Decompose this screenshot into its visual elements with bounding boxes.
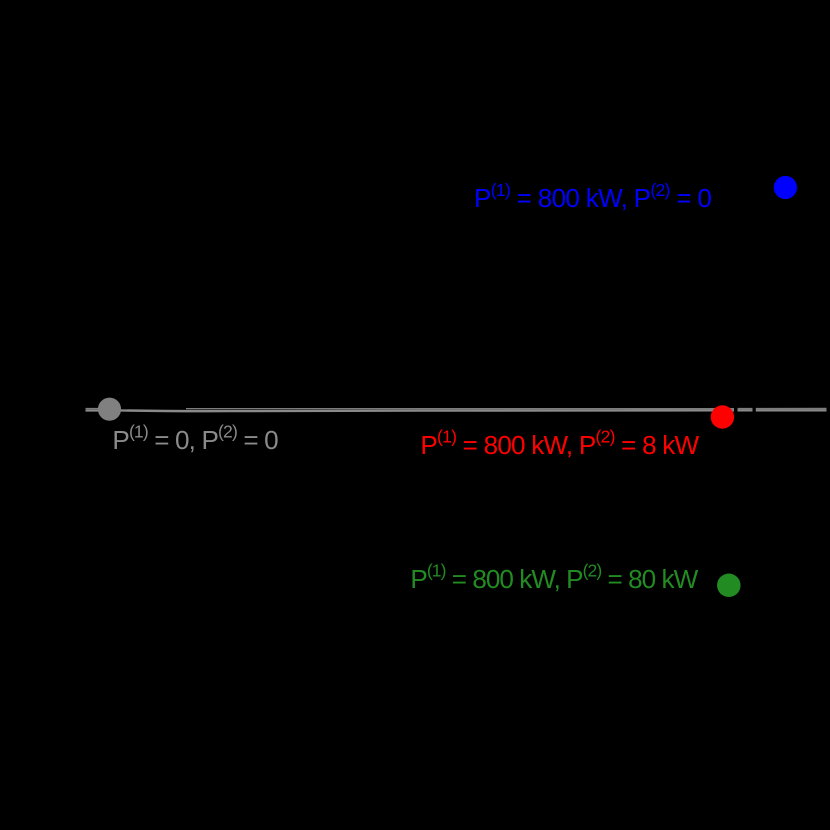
wire: droop curve (solid gray line through no-load point, flat to right edge) (86, 409, 827, 412)
wire: thin upper reference line with gaps (86, 407, 827, 409)
svg-text:P(1) = 800 kW, P(2) = 0: P(1) = 800 kW, P(2) = 0 (474, 180, 711, 213)
svg-text:P(1) = 800 kW, P(2) = 8 kW: P(1) = 800 kW, P(2) = 8 kW (420, 427, 699, 460)
node: green operating point P1=800kW, P2=80kW (717, 574, 741, 598)
node: blue operating point P1=800kW, P2=0 (774, 176, 797, 199)
svg-text:P(1) = 800 kW, P(2) = 80 kW: P(1) = 800 kW, P(2) = 80 kW (410, 560, 698, 593)
node: gray operating point P1=0, P2=0 (98, 398, 121, 421)
node: red operating point P1=800kW, P2=8kW (711, 405, 734, 428)
